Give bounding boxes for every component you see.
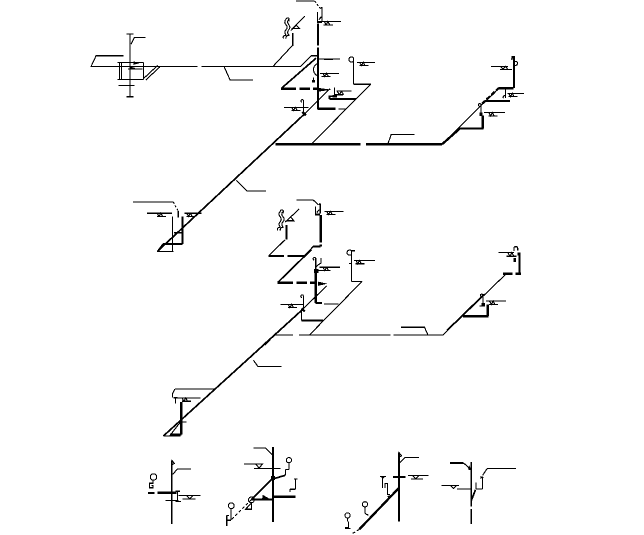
- detail 3 circle 1: [362, 502, 367, 507]
- lavatory M2 left tick: [349, 262, 352, 264]
- detail 2 flow arrow: [262, 495, 271, 500]
- fixture F2 leader tick: [172, 389, 174, 397]
- lavatory T3 vent symbol: [491, 66, 512, 69]
- fixture F foot diagonal: [157, 244, 163, 252]
- detail 4 drop diagonal: [471, 490, 475, 501]
- vent fixture VB2 top curl: [280, 210, 283, 213]
- step 3 horizontal: [499, 87, 514, 89]
- cleanout symbol CO-2: [325, 211, 344, 214]
- lavatory M1 vent symbol: [317, 267, 340, 270]
- main waste diagonal DM2: [163, 309, 302, 436]
- stack S2 lower riser: [315, 271, 317, 304]
- wire: stack to lav L2 thick segment: [324, 58, 333, 60]
- fixture D double diagonal: [144, 65, 160, 80]
- step 1 horizontal: [460, 127, 484, 129]
- fixture F left tail: [172, 217, 174, 252]
- detail 3 circle 1 stem: [365, 507, 369, 515]
- step 2 horizontal: [485, 100, 510, 102]
- detail 3 riser: [398, 453, 400, 522]
- detail 4 right arrow: [480, 476, 483, 479]
- lavatory S1 trap: [479, 294, 483, 306]
- vent fixture VB riser: [292, 33, 294, 46]
- branch stub B1: [224, 66, 253, 79]
- vent header H2: [278, 281, 316, 283]
- fixture F bottom elbow: [163, 243, 183, 245]
- lavatory L2 trap: [349, 57, 353, 84]
- lavatory M1 trap: [313, 258, 321, 271]
- detail 1 vent symbol: [179, 496, 201, 499]
- fixture F2 bracket: [175, 388, 216, 390]
- main waste diagonal DM: [157, 115, 303, 252]
- fixture D body box: [117, 62, 143, 79]
- detail 3 vent symbol: [408, 475, 428, 479]
- vent fixture VB2 arrowhead: [287, 217, 294, 221]
- lavatory M2 vent symbol: [354, 260, 375, 263]
- detail 1 vent stem: [149, 480, 153, 488]
- lavatory M3 drain horizontal: [302, 319, 323, 321]
- detail 1 branch tail: [175, 491, 181, 501]
- branch stub B5: [401, 327, 428, 335]
- lavatory L1 trap blob: [312, 80, 315, 83]
- lavatory L3 trap: [301, 100, 304, 115]
- vent fixture VB drop diagonal: [273, 46, 292, 67]
- detail 2 circle mid: [249, 497, 255, 503]
- lavatory T3 trap squiggle: [514, 61, 517, 65]
- detail 2 circle right stem: [286, 463, 289, 475]
- fixture F2 riser: [180, 402, 182, 435]
- lavatory M3 trap blob: [302, 308, 305, 311]
- lavatory S1 vent symbol: [486, 301, 506, 304]
- step M2 horizontal: [503, 273, 521, 275]
- detail 3 cross tick: [393, 476, 406, 478]
- fixture F2 bottom elbow: [170, 433, 181, 435]
- stack S2 bottom elbow extension: [324, 303, 339, 305]
- flow arrow A1: [318, 88, 331, 92]
- stack S2 bottom elbow: [316, 302, 322, 304]
- vent fixture VB top curl: [286, 18, 289, 21]
- vent header H1: [281, 87, 318, 89]
- lavatory L3 trap blob: [302, 112, 306, 116]
- vent fixture VB arrowhead: [292, 25, 299, 29]
- detail 2 riser: [272, 447, 274, 522]
- lavatory S2 trap knot lower: [514, 258, 516, 262]
- vent fixture VB2 symbol diagonal: [285, 209, 299, 222]
- branch stub B2: [236, 180, 266, 191]
- step 1 riser: [482, 116, 484, 129]
- main waste diagonal DM2 thin continuation: [303, 286, 327, 309]
- fixture D riser (left unit): [126, 34, 133, 97]
- fixture D inner line 2: [118, 85, 134, 87]
- vent fixture VB2 drop diagonal: [269, 240, 285, 256]
- vent fixture VB symbol diagonal: [291, 16, 305, 31]
- sink SK1 vent symbol: [335, 91, 352, 95]
- far-left bracket leader: [91, 56, 123, 67]
- detail 3 flow arrow: [387, 494, 394, 499]
- vent diagonal D1: [281, 58, 316, 88]
- lavatory S1 trap blob: [481, 303, 484, 306]
- detail 3 circle 2: [345, 513, 350, 518]
- waste diagonal DL2m: [310, 282, 362, 335]
- detail 4 arrow top: [468, 465, 472, 471]
- vent fixture VB wavy pipe 1: [283, 20, 287, 39]
- main horizontal MH1: [276, 143, 442, 145]
- vent stack VTR-1 offset squiggle: [317, 7, 322, 23]
- lavatory M2 trap: [347, 250, 355, 281]
- detail 2 mid pennant: [246, 503, 252, 509]
- lavatory T1 vent symbol: [484, 113, 505, 116]
- branch stub B4: [253, 360, 281, 366]
- branch R1 horizontal: [329, 98, 356, 100]
- detail 1 vent foot tick: [148, 492, 154, 494]
- detail 1 riser top flag: [172, 460, 175, 465]
- flow blob on DM2: [264, 340, 270, 345]
- detail 1 bracket: [173, 469, 191, 475]
- fixture D bracket leader: [131, 38, 146, 45]
- vent fixture VB2 riser: [286, 225, 288, 240]
- stair diagonal DS1: [442, 88, 499, 144]
- wire: stack to lav L2: [318, 58, 340, 60]
- lavatory L2 vent symbol: [357, 62, 375, 65]
- fixture F foot line: [157, 251, 173, 253]
- fixture D arrow 2: [130, 66, 136, 70]
- far-left horizontal run W1: [91, 65, 300, 67]
- lavatory L3 vent symbol: [284, 107, 308, 110]
- stack S2 elbow: [313, 246, 321, 248]
- lavatory S2 vent symbol: [499, 253, 517, 257]
- detail 2 lower-left foot: [227, 509, 231, 526]
- detail 2 faucet right: [290, 479, 298, 492]
- lavatory T1 trap: [478, 104, 481, 116]
- fixture F right riser: [181, 217, 183, 244]
- detail 2 junction blob: [271, 476, 275, 480]
- soil stack S1 riser: [317, 24, 319, 109]
- detail 2 vent symbol: [244, 464, 280, 468]
- detail 2 top bracket: [253, 448, 272, 455]
- step M2 riser: [518, 255, 520, 274]
- detail 3 circle 2 foot: [345, 518, 351, 528]
- fixture F vent symbol 2: [185, 213, 202, 216]
- fixture F2 foot line: [163, 435, 180, 437]
- stack S1 bottom elbow extension: [339, 108, 347, 110]
- stack S1 bottom elbow: [318, 108, 336, 110]
- main horizontal MH2: [275, 334, 443, 336]
- sink SK1 tail: [333, 88, 335, 96]
- branch stub B3: [388, 134, 415, 144]
- lavatory T2 vent symbol: [507, 93, 524, 96]
- lavatory L1 trap: [313, 63, 318, 80]
- detail 3 waste diagonal: [359, 488, 399, 529]
- lavatory M2 outlet: [352, 281, 363, 283]
- detail 3 bracket: [400, 458, 419, 463]
- soil stack S2 riser: [320, 215, 322, 247]
- step 3 riser: [513, 56, 515, 88]
- lavatory M3 drain drop: [301, 309, 303, 321]
- lavatory S2 hook: [514, 247, 518, 251]
- detail 3 waste diagonal thin end: [353, 529, 360, 533]
- fixture F2 foot tick: [180, 421, 186, 423]
- flow arrow A2: [318, 282, 327, 286]
- lavatory L1 vent symbol: [320, 73, 339, 76]
- fixture F leader tick: [177, 211, 179, 217]
- lavatory L2 outlet: [353, 83, 370, 85]
- detail 4 vent symbol: [441, 485, 458, 488]
- lavatory M1 trap blob: [314, 269, 318, 273]
- stack S1 upper elbow: [311, 55, 317, 57]
- detail 1 riser: [171, 460, 173, 524]
- detail 2 waste horizontal: [252, 498, 274, 500]
- stair diagonal DS2 thick overlay: [447, 295, 484, 331]
- stair diagonal DS2: [443, 274, 506, 335]
- detail 4 riser: [470, 462, 472, 524]
- vent header Ha: [269, 255, 305, 257]
- wire: elbow to header Ha: [304, 247, 313, 256]
- detail 4 lower line: [457, 488, 471, 490]
- detail 1 vent circle: [150, 474, 156, 480]
- lavatory M3 trap: [301, 295, 304, 308]
- fixture F leader dashes: [173, 202, 178, 211]
- step M1 riser: [487, 304, 489, 316]
- step M2 thin lead: [503, 273, 507, 275]
- wire: diagonal from elbow to far-left run: [300, 56, 311, 67]
- waste diagonal DL2: [311, 84, 371, 144]
- fixture D inner line 1: [128, 68, 143, 70]
- step M1 horizontal: [463, 315, 488, 317]
- fixture F2 vent symbol: [174, 398, 201, 401]
- vent fixture VB2 wavy pipe 1: [277, 212, 281, 231]
- detail 2 waste diagonal: [252, 478, 274, 500]
- detail 4 faucet right: [476, 477, 484, 489]
- fixture F2 faucet tick: [174, 397, 178, 403]
- lavatory T3 hook: [511, 56, 514, 59]
- fixture F bracket: [133, 201, 174, 203]
- detail 4 right bracket: [483, 468, 516, 475]
- lavatory S2 trap knot upper: [518, 252, 521, 255]
- detail 2 circle lower-left: [228, 503, 234, 509]
- lavatory T2 tail: [503, 88, 505, 98]
- detail 3 faucet left: [380, 476, 390, 494]
- detail 1 cross main: [158, 492, 177, 494]
- vent fixture VB wavy pipe 2: [286, 20, 290, 39]
- vent stack VTR-2 offset squiggle: [316, 203, 321, 215]
- detail 1 cross lower: [166, 499, 179, 501]
- fixture F2 foot diagonal: [170, 422, 181, 436]
- detail 2 dashed diagonal: [231, 500, 252, 521]
- vent stack VTR-2 top bracket: [297, 200, 319, 205]
- sink SK1 trap jog: [329, 96, 333, 99]
- detail 2 right drop diagonal: [274, 475, 286, 479]
- detail 2 right horizontal: [273, 496, 295, 498]
- stair diagonal DS1 thick upper overlay: [482, 88, 499, 104]
- fixture D arrow 1: [134, 61, 140, 65]
- stair diagonal DS1 thick lower overlay: [442, 128, 461, 144]
- fixture F vent symbol 1: [147, 213, 172, 216]
- fixture F mid tick: [174, 232, 182, 234]
- main waste diagonal DM thin continuation: [304, 89, 330, 115]
- lavatory M3 vent symbol: [280, 304, 302, 307]
- vent stack VTR-1 top bracket: [296, 1, 320, 8]
- vent diagonal D2: [278, 250, 312, 283]
- vent fixture VB2 wavy pipe 2: [280, 212, 284, 231]
- detail 2 circle right: [286, 458, 291, 463]
- detail 3 riser top flag: [399, 453, 402, 457]
- cleanout symbol CO-1: [318, 22, 342, 25]
- detail 4 top bracket: [450, 463, 471, 470]
- sink SK1 trap blob: [333, 95, 337, 98]
- lavatory T1 trap blob: [479, 113, 482, 116]
